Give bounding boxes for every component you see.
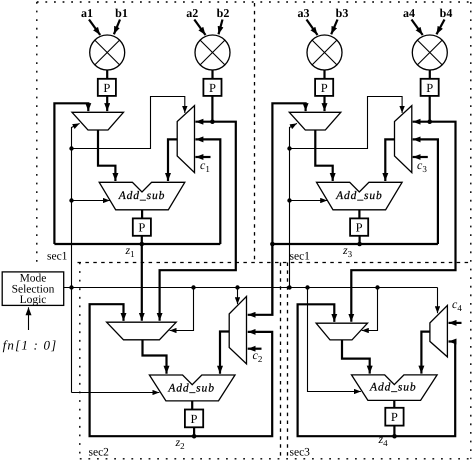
svg-text:z2: z2	[175, 435, 185, 451]
svg-text:a2: a2	[186, 6, 198, 20]
svg-text:Add_sub: Add_sub	[335, 190, 383, 202]
svg-text:b4: b4	[440, 6, 453, 20]
svg-text:P: P	[191, 412, 198, 426]
svg-text:a3: a3	[298, 6, 310, 20]
svg-text:Add_sub: Add_sub	[369, 382, 417, 394]
svg-text:sec1: sec1	[290, 251, 311, 263]
svg-text:b1: b1	[115, 6, 128, 20]
svg-text:Add_sub: Add_sub	[118, 190, 166, 202]
svg-text:sec3: sec3	[290, 447, 311, 459]
svg-text:z4: z4	[378, 432, 389, 448]
svg-text:P: P	[138, 221, 145, 235]
svg-text:P: P	[391, 410, 398, 424]
svg-text:Logic: Logic	[20, 294, 47, 306]
svg-text:b3: b3	[336, 6, 349, 20]
svg-text:c2: c2	[253, 348, 263, 364]
svg-text:c4: c4	[452, 297, 462, 313]
svg-text:P: P	[209, 81, 216, 95]
svg-text:P: P	[321, 81, 328, 95]
svg-text:sec1: sec1	[47, 251, 68, 263]
svg-text:fn[1 : 0]: fn[1 : 0]	[3, 338, 58, 353]
svg-text:a4: a4	[403, 6, 415, 20]
svg-text:c1: c1	[200, 158, 210, 174]
svg-text:P: P	[426, 81, 433, 95]
svg-text:z3: z3	[342, 243, 353, 259]
svg-text:P: P	[103, 81, 110, 95]
svg-text:z1: z1	[125, 243, 135, 259]
svg-text:a1: a1	[81, 6, 93, 20]
svg-text:b2: b2	[217, 6, 230, 20]
svg-text:Add_sub: Add_sub	[167, 382, 215, 394]
svg-text:c3: c3	[417, 158, 427, 174]
svg-text:P: P	[356, 221, 363, 235]
svg-text:sec2: sec2	[89, 447, 110, 459]
